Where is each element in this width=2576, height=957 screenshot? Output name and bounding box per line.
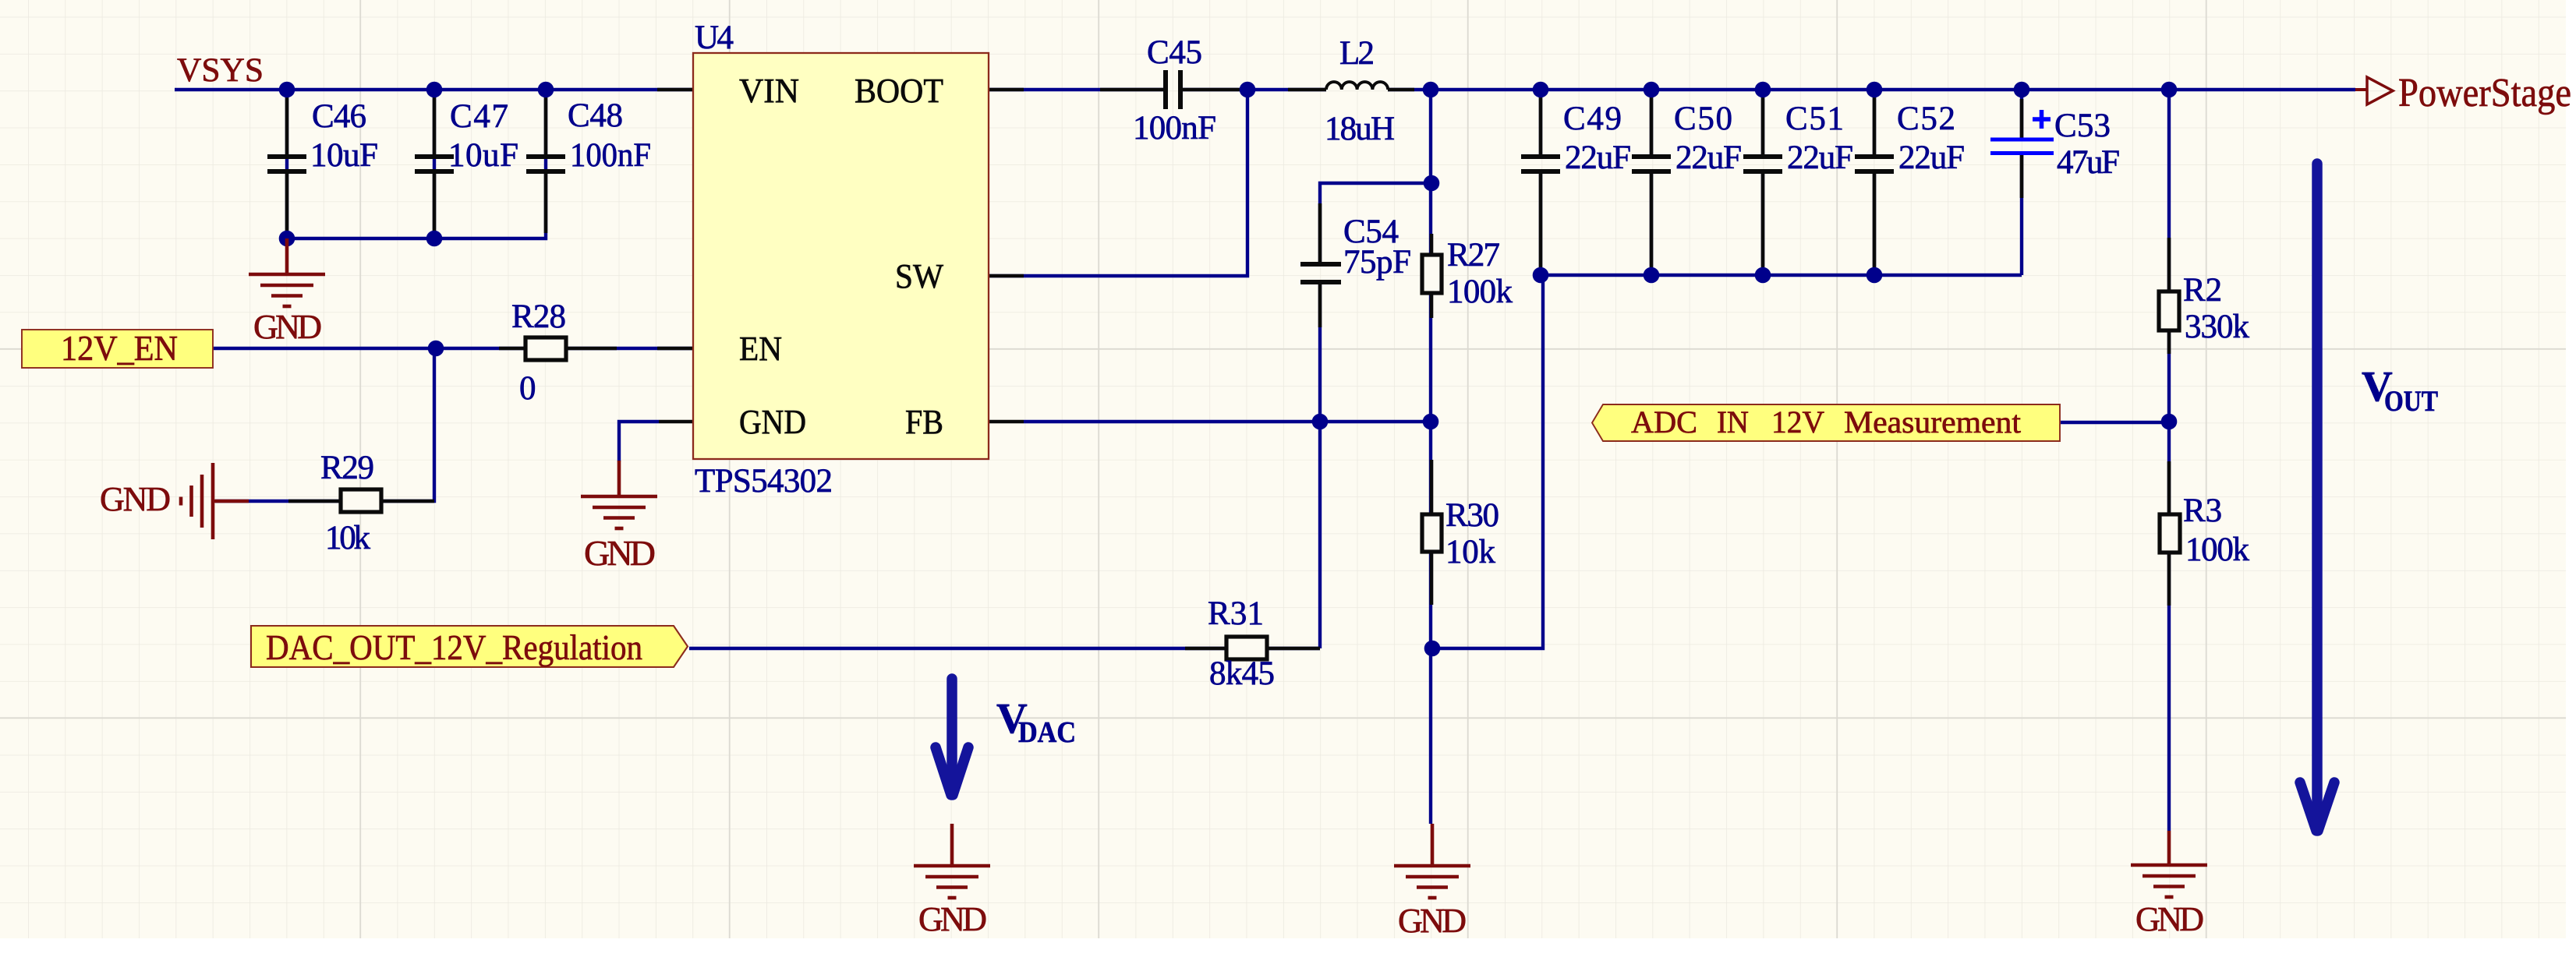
resistor R28 body — [525, 337, 566, 360]
svg-text:12V_EN: 12V_EN — [61, 329, 178, 368]
port PowerStage arrow — [2355, 88, 2367, 91]
junction L2 output node — [1423, 82, 1439, 98]
svg-text:R29: R29 — [320, 450, 374, 486]
capacitor C49-C52 leads — [1539, 97, 1543, 157]
svg-text:10uF: 10uF — [448, 137, 518, 174]
WIRES (blue) — [175, 90, 2355, 831]
wire 12V_EN to EN pin — [213, 347, 693, 350]
wire SW loop to boot node — [989, 90, 1247, 276]
svg-text:0: 0 — [519, 370, 536, 407]
svg-text:C53: C53 — [2054, 108, 2111, 144]
svg-text:75pF: 75pF — [1343, 244, 1411, 281]
junction rail/C53 — [2014, 82, 2030, 98]
junction caps bottom C50 — [1644, 267, 1660, 284]
svg-text:DAC: DAC — [1018, 716, 1076, 749]
svg-text:L2: L2 — [1339, 35, 1375, 72]
resistor R2 leads — [2167, 238, 2171, 291]
svg-text:R28: R28 — [511, 298, 566, 335]
svg-text:DAC_OUT_12V_Regulation: DAC_OUT_12V_Regulation — [266, 627, 642, 667]
wire C54/R31 vertical branch — [1320, 183, 1431, 263]
resistor R30 leads — [1430, 460, 1434, 514]
svg-text:FB: FB — [905, 403, 943, 441]
capacitor C50 plates — [1632, 157, 1671, 171]
capacitor C54 plates — [1300, 264, 1341, 282]
junction BOOT/C45/SW — [1240, 82, 1256, 98]
ground below R30 branch — [1394, 824, 1470, 898]
svg-text:C45: C45 — [1147, 34, 1202, 71]
svg-text:EN: EN — [739, 330, 782, 368]
wire C45 to L2 — [1181, 88, 1326, 91]
junction ADC/R2/R3 — [2161, 414, 2178, 430]
pin FB stub — [989, 420, 1024, 424]
svg-text:47uF: 47uF — [2057, 144, 2120, 181]
svg-text:VIN: VIN — [739, 72, 799, 110]
resistor R3 body — [2160, 514, 2180, 553]
svg-text:22uF: 22uF — [1565, 139, 1631, 176]
svg-text:R31: R31 — [1208, 595, 1264, 632]
svg-text:PowerStage: PowerStage — [2398, 71, 2571, 115]
capacitor C53 plates (polarized) — [1990, 139, 2054, 154]
svg-text:BOOT: BOOT — [855, 72, 943, 110]
junction EN/R29 — [428, 341, 444, 357]
capacitor C51 plates — [1743, 157, 1782, 171]
op-amp U4 body TPS54302 — [693, 53, 989, 459]
wire VSYS rail to VIN — [175, 88, 693, 91]
wire L2 to output rail — [1388, 88, 2355, 91]
junction caps bottom C49 — [1533, 267, 1549, 284]
svg-text:100k: 100k — [2185, 531, 2250, 568]
svg-text:R2: R2 — [2183, 272, 2222, 309]
svg-text:12V: 12V — [1771, 404, 1824, 440]
capacitor C49 plates — [1521, 157, 1560, 171]
svg-text:C51: C51 — [1785, 101, 1844, 137]
capacitor C45 leads — [1100, 88, 1165, 92]
svg-text:22uF: 22uF — [1898, 139, 1965, 176]
capacitor C53 plus sign — [2033, 110, 2051, 129]
capacitor C53 leads — [2020, 99, 2024, 139]
svg-text:R27: R27 — [1447, 237, 1500, 274]
capacitor C46 plates — [267, 157, 306, 171]
capacitor C48 leads — [544, 97, 548, 157]
svg-text:10k: 10k — [325, 520, 371, 556]
svg-text:100nF: 100nF — [1133, 110, 1216, 147]
wire DAC net to R31 — [689, 647, 1320, 650]
resistor R31 body — [1226, 637, 1267, 659]
ground below C46 — [249, 238, 325, 306]
junction C46 bottom — [279, 231, 295, 247]
junction rail/R2 — [2161, 82, 2178, 98]
wire SW node vertical branch R27/R30 — [1429, 90, 1432, 824]
capacitor C52 plates — [1855, 157, 1894, 171]
port ADC_IN_12V_Measurement — [1592, 404, 2060, 441]
resistor R28 leads — [499, 347, 525, 351]
net label 12V_EN box — [22, 330, 213, 368]
resistor R31 leads — [1185, 647, 1226, 651]
resistor R29 body — [341, 489, 381, 512]
junction VSYS/C46 — [279, 82, 295, 98]
wire C53 branch — [2020, 90, 2023, 139]
ground below V_DAC arrow — [914, 824, 990, 898]
wire C49 branch down to R30 node — [1432, 275, 1543, 648]
junction C54 tee — [1424, 175, 1440, 192]
svg-text:C47: C47 — [450, 98, 508, 135]
junction VSYS/C47 — [426, 82, 443, 98]
junction C47 bottom — [426, 231, 443, 247]
svg-text:SW: SW — [895, 257, 943, 295]
ground below R3 — [2131, 831, 2207, 897]
wire C46-C48 bottom rail — [287, 90, 546, 238]
resistor R2 body — [2159, 291, 2179, 330]
junction FB/R27 branch — [1423, 414, 1439, 430]
port DAC_OUT_12V_Regulation — [251, 626, 688, 667]
svg-text:OUT: OUT — [2384, 386, 2438, 418]
junction caps bottom C51 — [1755, 267, 1771, 284]
svg-text:8k45: 8k45 — [1209, 655, 1275, 692]
pin SW stub — [989, 274, 1024, 278]
svg-text:R3: R3 — [2183, 493, 2222, 529]
capacitor C47 leads — [433, 97, 437, 157]
wire R29 up to EN node — [215, 348, 434, 501]
inductor L2 leads — [1288, 88, 1326, 92]
pin GND stub — [659, 420, 693, 424]
capacitor C46 leads — [285, 97, 289, 157]
wire GND pin drop — [619, 422, 659, 461]
svg-text:22uF: 22uF — [1675, 139, 1742, 176]
svg-text:Measurement: Measurement — [1844, 404, 2022, 440]
junction R30 bottom — [1424, 641, 1441, 657]
resistor R27 leads — [1430, 234, 1434, 255]
svg-text:18uH: 18uH — [1325, 111, 1395, 147]
svg-text:100nF: 100nF — [570, 137, 651, 174]
svg-text:GND: GND — [2135, 900, 2204, 938]
resistor R29 leads — [288, 500, 341, 503]
junction caps bottom C52 — [1867, 267, 1883, 284]
pin VIN stub — [657, 88, 693, 92]
V_DAC indicator arrow — [936, 679, 968, 795]
svg-text:10uF: 10uF — [310, 137, 378, 174]
junction rail/C50 — [1644, 82, 1660, 98]
resistor R3 leads — [2167, 461, 2171, 514]
svg-text:22uF: 22uF — [1787, 139, 1853, 176]
wire BOOT to C45 — [989, 88, 1165, 91]
svg-text:R30: R30 — [1445, 497, 1499, 534]
svg-text:TPS54302: TPS54302 — [695, 463, 833, 500]
svg-text:C49: C49 — [1563, 101, 1622, 137]
svg-text:GND: GND — [584, 533, 656, 573]
component black leads — [287, 90, 2169, 648]
junction VSYS/C48 — [538, 82, 554, 98]
svg-text:GND: GND — [100, 480, 171, 518]
svg-text:GND: GND — [1398, 902, 1467, 940]
svg-text:10k: 10k — [1445, 534, 1496, 570]
ground left (rotated power port) — [181, 463, 249, 539]
svg-text:U4: U4 — [695, 19, 734, 56]
svg-text:GND: GND — [918, 900, 987, 938]
wire caps bottom rail — [1541, 274, 2022, 277]
pin BOOT stub — [989, 88, 1024, 92]
inductor L2 — [1326, 82, 1388, 90]
wire ADC label to divider — [2061, 421, 2170, 424]
svg-text:C50: C50 — [1674, 101, 1732, 137]
ground below U4 GND pin — [581, 461, 657, 528]
capacitor C54 leads — [1318, 203, 1322, 263]
svg-text:GND: GND — [253, 308, 322, 346]
capacitor C47 plates — [415, 157, 454, 171]
svg-text:100k: 100k — [1447, 274, 1513, 310]
svg-text:C48: C48 — [568, 97, 623, 134]
pin EN stub — [657, 347, 693, 351]
wire output caps branches — [1539, 90, 1542, 157]
resistor R27 body — [1422, 255, 1442, 293]
capacitor C48 plates — [526, 157, 565, 171]
svg-text:GND: GND — [739, 403, 806, 441]
svg-text:C46: C46 — [312, 98, 366, 135]
junction rail/C52 — [1867, 82, 1883, 98]
V_OUT indicator arrow — [2300, 164, 2334, 831]
svg-text:ADC: ADC — [1631, 404, 1697, 440]
svg-text:IN: IN — [1717, 404, 1749, 440]
junction FB/C54 branch — [1312, 414, 1329, 430]
junction rail/C51 — [1755, 82, 1771, 98]
svg-text:VSYS: VSYS — [177, 52, 264, 89]
svg-text:C52: C52 — [1897, 101, 1955, 137]
wire FB net — [1024, 420, 1431, 423]
svg-text:330k: 330k — [2185, 309, 2250, 345]
junction rail/C49 — [1533, 82, 1549, 98]
capacitor C45 plates — [1166, 70, 1180, 109]
wire R2/R3 divider branch — [2167, 90, 2171, 831]
resistor R30 body — [1422, 514, 1442, 552]
